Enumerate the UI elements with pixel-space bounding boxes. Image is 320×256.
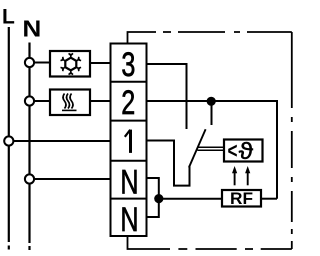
svg-text:N: N bbox=[120, 164, 138, 202]
wire N clamp to cooling box bbox=[34, 62, 50, 64]
enclosure phantom border bottom bbox=[128, 236, 292, 249]
heating device box bbox=[50, 90, 90, 116]
wire terminal 3 to switch contact A bbox=[147, 64, 187, 129]
svg-text:N: N bbox=[22, 17, 41, 42]
node clamp on N rail to terminal N bbox=[25, 174, 34, 183]
cooling snowflake icon bbox=[65, 58, 76, 71]
wire terminal 2 line to right bbox=[147, 101, 278, 199]
sensor box bbox=[224, 140, 263, 162]
svg-text:L: L bbox=[2, 6, 15, 29]
svg-text:<: < bbox=[228, 139, 238, 164]
svg-text:3: 3 bbox=[121, 46, 135, 84]
wire terminal 1 to switch pivot bbox=[147, 141, 190, 186]
wire N terminals bracket bbox=[147, 178, 159, 217]
wire N clamp to terminal N bbox=[34, 178, 110, 180]
node clamp on L rail to terminal 1 bbox=[4, 136, 13, 145]
svg-text:RF: RF bbox=[230, 190, 253, 208]
enclosure phantom border top bbox=[128, 32, 292, 44]
terminal 1 label bbox=[129, 130, 132, 153]
RF arrow 2 bbox=[247, 171, 249, 185]
terminal strip outline bbox=[111, 44, 147, 237]
wire junction to switch contact B bbox=[211, 101, 213, 125]
wire N junction to RF box bbox=[159, 198, 222, 200]
wire heating box to terminal 2 bbox=[90, 100, 111, 102]
wire N clamp to heating box bbox=[34, 100, 50, 102]
mechanical link double line bbox=[197, 147, 224, 150]
wire L clamp to terminal 1 bbox=[13, 140, 110, 142]
svg-text:ϑ: ϑ bbox=[239, 138, 254, 164]
RF arrow 1 bbox=[234, 171, 236, 185]
switch blade bbox=[189, 129, 206, 167]
heating icon waves bbox=[63, 94, 73, 109]
cooling device box bbox=[50, 51, 90, 77]
wire RF box to line 2 riser bbox=[261, 198, 277, 200]
wire N rail bbox=[28, 43, 30, 251]
svg-text:N: N bbox=[120, 202, 138, 240]
junction dot on N bracket bbox=[154, 194, 163, 203]
enclosure phantom border right bbox=[291, 32, 293, 249]
junction dot on line 2 bbox=[207, 97, 216, 106]
node clamp on N rail to cooling bbox=[25, 58, 34, 67]
RF box bbox=[222, 190, 261, 207]
svg-text:2: 2 bbox=[121, 84, 135, 122]
wire L rail bbox=[8, 27, 10, 250]
terminal dividers bbox=[111, 82, 147, 199]
node clamp on N rail to heating bbox=[25, 96, 34, 105]
wire cooling box to terminal 3 bbox=[90, 62, 111, 64]
